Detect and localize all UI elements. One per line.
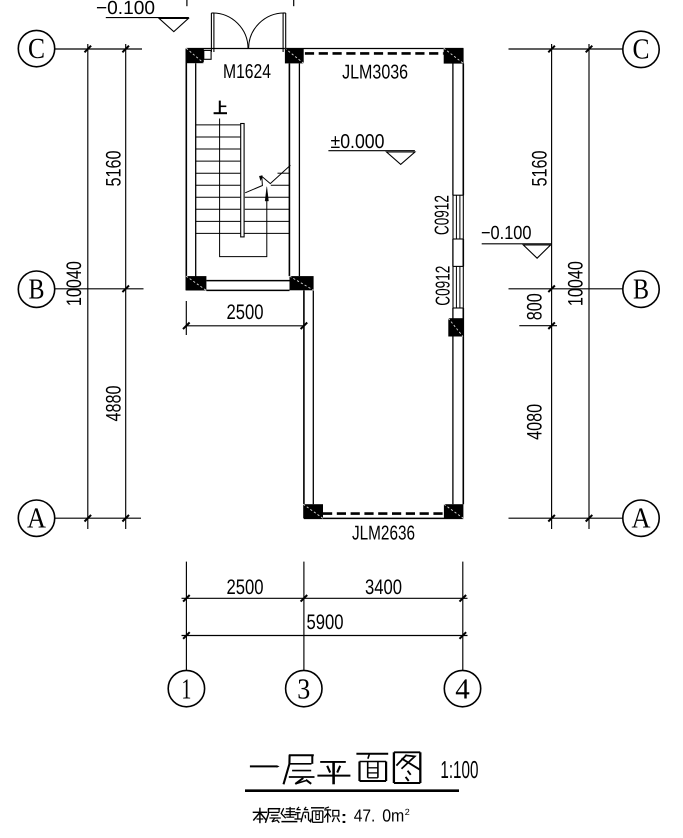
svg-text:3: 3 (297, 673, 310, 705)
svg-text:2: 2 (405, 807, 410, 817)
grid circle C right (623, 31, 659, 67)
door M1624 jamb block (204, 50, 211, 59)
footer area value 47.0m2 (354, 805, 410, 825)
svg-text:1: 1 (181, 673, 191, 705)
svg-text:10040: 10040 (565, 261, 588, 306)
wall right outer segment3 (462, 308, 464, 504)
title char 平 (317, 762, 350, 784)
level mark -0.100 right triangle (523, 245, 550, 258)
beam JLM3036 dashed line (305, 52, 444, 55)
door M1624 right leaf (282, 13, 284, 52)
svg-text:10040: 10040 (63, 261, 86, 306)
grid circle B right (623, 271, 659, 307)
grid line C right (509, 48, 623, 50)
grid line B left (54, 288, 143, 290)
stair break line (245, 165, 290, 193)
wall middle left line (288, 63, 290, 276)
extension line grid 4 bottom (462, 562, 464, 670)
label 上 (up) (214, 101, 227, 114)
top extension mark left (186, 0, 188, 6)
grid circle C left (18, 30, 54, 66)
svg-text:47.: 47. (354, 805, 376, 825)
grid circle 1 (168, 670, 204, 706)
svg-text:C0912: C0912 (433, 266, 455, 306)
door M1624 left swing arc (213, 13, 248, 48)
stair steps right flight (245, 173, 290, 209)
dimension line right inner (551, 44, 553, 529)
stair walking line arrow (265, 187, 268, 201)
extension line 2500 left (185, 301, 187, 335)
wall lower-left outer (303, 290, 305, 504)
wall top edge line (186, 48, 463, 50)
extension line grid 1 bottom (185, 562, 187, 671)
dimension line bottom second 5900 (182, 635, 468, 637)
footer colon (343, 814, 346, 823)
svg-text:A: A (632, 502, 651, 534)
dimension line left outer 10040 (87, 44, 89, 529)
column right wall B+800 (448, 318, 463, 336)
svg-text:2500: 2500 (227, 301, 264, 324)
grid circle A left (18, 500, 54, 536)
door M1624 left leaf (210, 13, 212, 52)
grid circle 3 (286, 670, 322, 706)
grid circle B left (18, 271, 54, 307)
svg-text:C0912: C0912 (432, 195, 454, 235)
wall middle right line (298, 63, 300, 276)
title underline (245, 789, 459, 792)
svg-text:B: B (29, 273, 45, 305)
svg-text:−0.100: −0.100 (96, 0, 155, 19)
stair landing edge line (196, 232, 290, 234)
svg-text:JLM3036: JLM3036 (342, 61, 408, 83)
top extension mark right (293, 0, 295, 6)
stair steps left flight (196, 125, 241, 209)
extension line grid 3 bottom (303, 562, 305, 670)
level mark -0.100 right line (482, 243, 552, 245)
svg-text:−0.100: −0.100 (481, 223, 532, 244)
footer char 建 (281, 807, 297, 822)
window C0912 lower (453, 266, 463, 308)
svg-text:4080: 4080 (524, 404, 547, 440)
svg-text:5900: 5900 (307, 611, 344, 634)
footer char 积 (324, 807, 339, 823)
wall stair bottom top edge (206, 280, 289, 282)
column top-right (444, 48, 464, 63)
grid circle 4 (444, 670, 480, 706)
wall lower-left inner (312, 290, 314, 504)
stair step full width 1 (196, 220, 290, 222)
stair walking line (220, 119, 267, 257)
svg-text:C: C (28, 33, 45, 65)
level mark -0.100 top triangle (159, 18, 188, 31)
column stair bottom-right (290, 276, 314, 290)
wall right outer segment2 (462, 239, 464, 266)
window C0912 upper (453, 195, 463, 239)
dimension line right outer 10040 (588, 44, 590, 529)
footer char 本 (253, 808, 267, 824)
svg-text:3400: 3400 (365, 576, 402, 599)
svg-text:0m: 0m (382, 805, 404, 825)
wall left inner (195, 63, 197, 280)
title char 层 (284, 755, 315, 784)
svg-text:B: B (633, 273, 649, 305)
level mark ±0.000 triangle (387, 152, 415, 164)
wall bottom edge line (304, 517, 464, 519)
wall right outer segment1 (462, 64, 464, 196)
column top-middle (285, 48, 304, 63)
svg-text:M1624: M1624 (223, 61, 271, 83)
svg-text:4880: 4880 (103, 386, 126, 422)
svg-text:800: 800 (524, 293, 547, 320)
title char 一 (250, 765, 280, 768)
grid circle A right (623, 500, 659, 536)
column bottom-left (303, 504, 323, 518)
dimension line 2500 interior (186, 325, 304, 327)
column bottom-right (444, 504, 464, 518)
title char 面 (356, 754, 388, 781)
beam JLM2636 dashed line (323, 512, 444, 515)
svg-text:4: 4 (455, 673, 470, 705)
wall right inner segment1 (452, 64, 454, 196)
wall stair bottom bottom edge (206, 289, 289, 291)
wall left outer (185, 49, 187, 291)
wall right inner segment3 (452, 308, 454, 504)
level mark ±0.000 line (328, 150, 415, 152)
footer char 筑 (294, 807, 311, 822)
grid line B right (509, 288, 623, 290)
grid line A left (55, 517, 141, 519)
grid line A right (509, 517, 623, 519)
title char 图 (394, 752, 420, 783)
svg-text:1:100: 1:100 (440, 757, 478, 784)
stair divider rail (241, 124, 244, 237)
footer char 层 (265, 809, 280, 823)
extension line 800 right (519, 325, 557, 327)
svg-text:JLM2636: JLM2636 (352, 523, 415, 545)
level mark -0.100 top line (106, 17, 189, 19)
footer char 面 (311, 808, 324, 823)
svg-text:A: A (27, 502, 46, 534)
dimension line bottom first (182, 597, 468, 599)
dimension line left inner (125, 44, 127, 529)
svg-text:±0.000: ±0.000 (331, 131, 385, 153)
svg-text:C: C (633, 34, 650, 66)
door M1624 right swing arc (249, 13, 285, 48)
svg-text:5160: 5160 (103, 151, 126, 187)
wall right inner segment2 (452, 239, 454, 266)
svg-text:5160: 5160 (529, 151, 552, 187)
svg-text:2500: 2500 (227, 576, 264, 599)
column top-left (186, 48, 204, 63)
column stair bottom-left (186, 276, 206, 290)
grid line C left (55, 48, 142, 50)
